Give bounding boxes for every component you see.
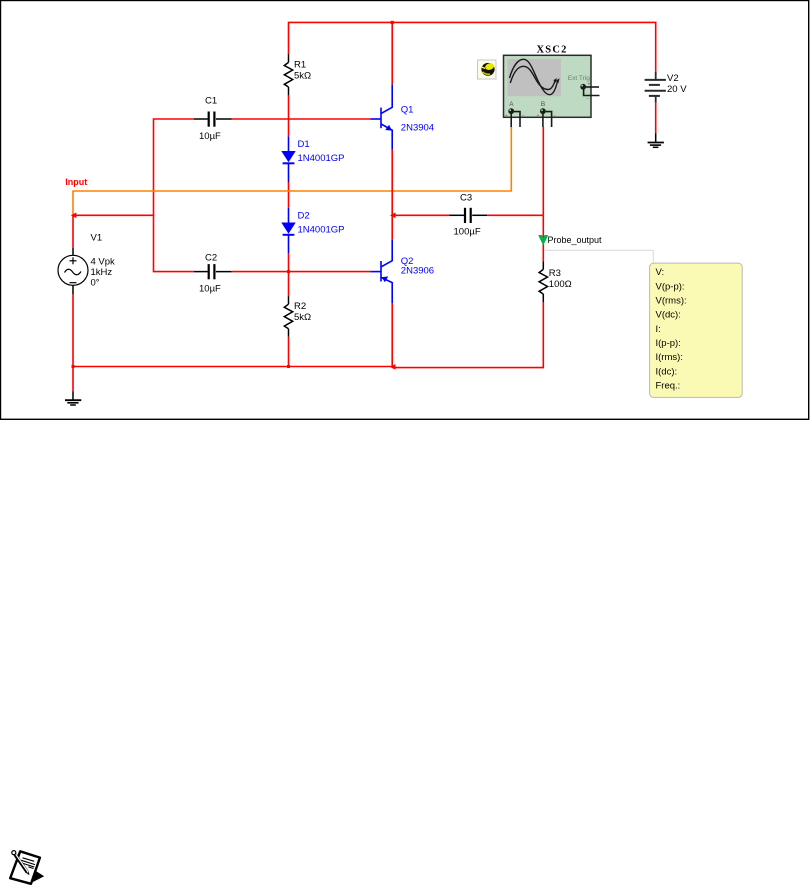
svg-text:D2: D2 <box>298 210 310 221</box>
annotation box probe readout <box>650 263 743 397</box>
svg-text:−: − <box>586 97 589 103</box>
wire scope B to output column <box>542 127 544 215</box>
wire output column down to R3 <box>542 215 544 261</box>
comment icon attached to scope <box>478 60 497 79</box>
wire bottom bus right <box>392 367 543 369</box>
transistor Q1 <box>371 85 393 150</box>
svg-text:0°: 0° <box>91 277 100 288</box>
wire bottom bus left <box>73 366 392 368</box>
svg-text:−: − <box>553 113 556 119</box>
ground under V1 <box>65 391 81 405</box>
wire C1 left <box>154 119 194 272</box>
wire V1 top <box>72 215 74 248</box>
wire D2 to C2 row <box>288 253 290 296</box>
svg-text:1kHz: 1kHz <box>91 267 113 278</box>
wire output node to Q2 <box>391 215 393 239</box>
wire Q2 emitter to bottom bus <box>391 303 393 367</box>
svg-text:−: − <box>522 113 525 119</box>
wire Q1 collector up <box>391 22 393 84</box>
svg-text:B: B <box>541 101 545 108</box>
svg-text:I(rms):: I(rms): <box>656 352 683 363</box>
svg-text:+: + <box>505 113 508 119</box>
svg-text:10µF: 10µF <box>199 284 221 295</box>
svg-text:2N3906: 2N3906 <box>401 265 434 276</box>
wire C3 to output column <box>487 214 543 216</box>
wire R2 to bottom bus <box>288 337 290 367</box>
svg-text:+: + <box>588 81 591 87</box>
svg-text:2N3904: 2N3904 <box>401 123 434 134</box>
svg-text:4 Vpk: 4 Vpk <box>91 256 116 267</box>
svg-text:R3: R3 <box>549 268 561 279</box>
svg-text:1N4001GP: 1N4001GP <box>298 153 345 164</box>
wire C1 row to Q1 base <box>232 118 371 120</box>
wire D1 to D2 <box>288 182 290 208</box>
svg-text:C1: C1 <box>205 96 217 107</box>
node bus-Q2 junction arrow <box>390 364 396 370</box>
svg-text:I(p-p):: I(p-p): <box>656 338 681 349</box>
svg-text:Input: Input <box>65 177 87 187</box>
resistor R2 <box>284 296 292 337</box>
node output junction arrow <box>390 213 396 219</box>
svg-text:D1: D1 <box>298 139 310 150</box>
transistor Q2 <box>371 240 393 304</box>
node junction top <box>391 21 394 24</box>
battery V2 <box>645 72 666 103</box>
source V1 <box>58 248 88 294</box>
wire top bus VCC <box>289 22 656 72</box>
svg-text:V:: V: <box>656 267 665 278</box>
oscilloscope XSC2 <box>504 55 600 127</box>
wire probe callout line <box>545 250 654 263</box>
node D2-R2-C2 junction <box>287 270 290 273</box>
capacitor C1 <box>194 112 232 127</box>
resistor R3 <box>539 261 547 302</box>
svg-text:100µF: 100µF <box>454 226 481 237</box>
ground under V2 <box>648 134 664 148</box>
resistor R1 <box>284 54 292 95</box>
probe Probe_output <box>539 235 602 245</box>
svg-text:C2: C2 <box>205 252 217 263</box>
svg-text:1N4001GP: 1N4001GP <box>298 225 345 236</box>
node input junction arrow <box>71 213 77 219</box>
diode D2 <box>281 208 295 254</box>
svg-text:I(dc):: I(dc): <box>656 366 678 377</box>
node bus-R2 junction <box>287 365 290 368</box>
svg-text:A: A <box>509 101 514 108</box>
svg-text:10µF: 10µF <box>199 131 221 142</box>
capacitor C2 <box>194 264 232 279</box>
svg-text:5kΩ: 5kΩ <box>294 312 311 323</box>
svg-text:Q1: Q1 <box>401 104 414 115</box>
svg-text:Freq.:: Freq.: <box>656 380 681 391</box>
wire R3 to bottom bus <box>542 302 544 368</box>
wire C2 to Q2 base <box>232 271 371 273</box>
svg-text:V2: V2 <box>667 73 679 84</box>
svg-text:C3: C3 <box>460 192 472 203</box>
schematic frame <box>1 1 809 420</box>
wire V1 to bottom bus <box>72 294 74 391</box>
wire output node to C3 <box>392 214 449 216</box>
wire V2 to ground <box>655 103 657 134</box>
capacitor C3 <box>449 208 487 223</box>
svg-text:V1: V1 <box>91 233 103 244</box>
svg-text:I:: I: <box>656 324 661 335</box>
svg-text:V(dc):: V(dc): <box>656 310 681 321</box>
svg-text:R1: R1 <box>294 59 306 70</box>
svg-text:5kΩ: 5kΩ <box>294 70 311 81</box>
svg-text:XSC2: XSC2 <box>537 44 568 55</box>
svg-text:V(p-p):: V(p-p): <box>656 281 685 292</box>
svg-text:Probe_output: Probe_output <box>548 235 603 245</box>
diode D1 <box>281 136 295 182</box>
wire input node horizontal <box>73 214 154 216</box>
svg-text:R2: R2 <box>294 301 306 312</box>
svg-text:100Ω: 100Ω <box>549 279 572 290</box>
wire input net orange <box>73 127 511 215</box>
wire R1 to D1 <box>288 95 290 136</box>
svg-text:V(rms):: V(rms): <box>656 296 687 307</box>
note icon <box>10 851 44 885</box>
svg-text:+: + <box>537 113 540 119</box>
svg-text:20 V: 20 V <box>667 84 687 95</box>
wire Q1 emitter down <box>391 150 393 216</box>
node bus-V1 junction <box>72 365 75 368</box>
